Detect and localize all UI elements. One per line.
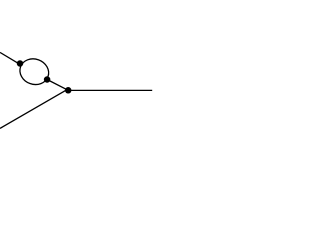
node: vertex dot 1 (loop upper-left) <box>17 60 24 66</box>
wire: internal propagator from loop vertex to main vertex <box>47 80 68 91</box>
wire: lower-left external leg <box>0 90 67 128</box>
wire: outgoing horizontal external leg (right) <box>68 89 152 91</box>
wire: incoming upper-left external leg <box>0 52 20 64</box>
node: vertex dot 2 (loop lower-right) <box>44 76 51 83</box>
node: vertex dot 3 (main junction) <box>65 87 72 94</box>
loop: self-energy bubble (rotated ellipse) between vertex dots <box>16 55 52 89</box>
